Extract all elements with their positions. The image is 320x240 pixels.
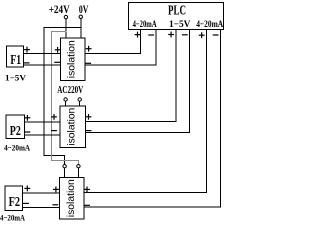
polarity sign plus U2 left [52,115,57,120]
isolation module U2 box [60,106,86,148]
polarity sign minus U2 left [52,130,57,132]
wire U3 terminal B stem [77,168,79,178]
wire U2 plus out to PLC ch2 [86,30,177,122]
wire 0V rail vertical [43,27,45,155]
PLC U4 box [129,3,224,30]
wire P2 plus to U2 [25,121,60,123]
polarity sign plus PLC ch3 [199,33,204,38]
wire +24V rail vertical [51,32,53,161]
+24V terminal circle [64,15,67,18]
U3 supply terminal circle A [63,165,66,168]
polarity sign minus U3 left [53,204,58,206]
wire 0V rail jog to U3 [44,154,65,156]
transmitter F1 box [7,46,24,67]
wire 0V tap horizontal [44,26,81,28]
wire U1 minus out to PLC ch1 [85,30,156,66]
wire F1 plus to U1 [24,52,61,54]
wire U1 plus out to PLC ch1 [85,30,141,54]
AC220V terminal circle A [64,98,67,101]
wire P2 minus to U2 [25,134,60,136]
svg-text:+24V: +24V [49,4,71,16]
svg-text:4−20mA: 4−20mA [133,20,157,30]
transmitter P2 box [6,115,25,138]
svg-text:4−20mA: 4−20mA [196,20,223,30]
polarity sign minus U3 right [85,204,90,206]
polarity sign plus U3 left [54,187,59,192]
wire U2 minus out to PLC ch2 [86,30,190,133]
polarity sign plus PLC ch1 [135,32,140,37]
polarity sign minus PLC ch3 [213,34,218,36]
svg-text:isolation: isolation [66,179,77,217]
wire +24V drop to U3 terminal [77,160,79,164]
wire F2 minus to U3 [22,206,59,208]
polarity sign plus F1 [25,47,30,52]
wire AC220V stem A [65,101,67,106]
wire 0V drop to U3 terminal [64,155,66,164]
transmitter F2 box [5,186,22,211]
wire +24V tap horizontal [52,31,66,33]
svg-text:0V: 0V [79,4,89,16]
polarity sign plus U3 right [85,187,90,192]
polarity sign plus F2 [25,186,30,191]
svg-text:F2: F2 [9,195,20,210]
svg-text:isolation: isolation [67,40,78,78]
isolation module U3 box [60,178,85,220]
polarity sign plus U1 left [55,48,60,53]
wire U3 plus out to PLC ch3 [84,30,206,193]
svg-text:P2: P2 [10,124,21,139]
AC220V terminal circle B [78,98,81,101]
wire +24V stem to U1 top [65,19,67,38]
svg-text:4−20mA: 4−20mA [0,212,26,222]
U3 supply terminal circle B [77,165,80,168]
wire 0V stem to U1 top [80,19,82,38]
polarity sign minus U1 right [86,62,91,64]
polarity sign minus PLC ch2 [183,34,188,36]
isolation module U1 box [61,38,86,81]
polarity sign minus F2 [24,202,29,204]
wire U3 terminal A stem [64,168,66,178]
polarity sign plus P2 [25,116,30,121]
0V terminal circle [79,15,82,18]
svg-text:isolation: isolation [67,108,78,146]
wire +24V rail jog to U3 [52,159,79,161]
polarity sign plus U2 right [86,115,91,120]
polarity sign plus PLC ch2 [169,32,174,37]
polarity sign minus F1 [24,62,29,64]
polarity sign minus PLC ch1 [149,34,154,36]
svg-text:PLC: PLC [168,4,186,19]
wire F2 plus to U3 [22,192,59,194]
svg-text:1−5V: 1−5V [5,74,26,83]
wire AC220V stem B [79,101,81,106]
polarity sign minus U2 right [86,130,91,132]
svg-text:1−5V: 1−5V [169,20,191,30]
wire F1 minus to U1 [24,64,61,66]
polarity sign plus U1 right [86,46,91,51]
polarity sign minus P2 [25,131,30,133]
polarity sign minus U1 left [55,61,60,63]
svg-text:F1: F1 [10,53,21,68]
svg-text:4−20mA: 4−20mA [4,143,31,153]
svg-text:AC220V: AC220V [57,85,84,96]
wire U3 minus out to PLC ch3 [84,30,220,207]
